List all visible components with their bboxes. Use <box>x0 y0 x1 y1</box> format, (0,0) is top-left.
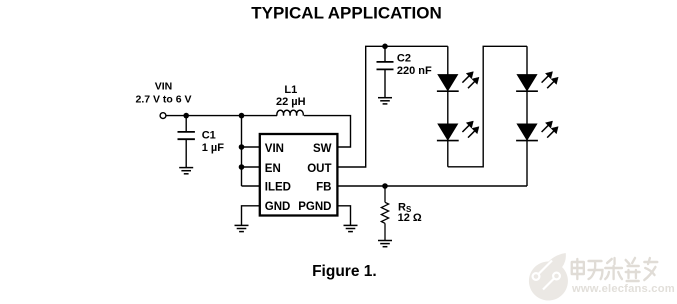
ground: GND pin <box>235 225 249 231</box>
D4 light arrows <box>542 121 559 138</box>
svg-text:C1: C1 <box>202 130 216 142</box>
junction: C1 tap <box>183 113 189 119</box>
wire: VIN rail left segment <box>166 115 277 117</box>
svg-text:22 µH: 22 µH <box>276 96 306 108</box>
wire: LED string 1 vertical <box>447 46 449 167</box>
LED D1 <box>437 75 459 92</box>
wire: string1 bottom jog to string2 top <box>448 46 527 167</box>
svg-text:EN: EN <box>265 163 281 175</box>
ground: RS <box>378 241 392 247</box>
svg-text:ILED: ILED <box>265 182 291 194</box>
inductor L1 <box>277 110 303 115</box>
junction: VIN pin <box>239 144 245 150</box>
LED D3 <box>516 75 538 92</box>
svg-text:Figure 1.: Figure 1. <box>312 263 377 280</box>
D1 light arrows <box>462 72 479 89</box>
resistor RS <box>381 186 388 240</box>
input terminal circle <box>160 113 166 119</box>
ground: PGND pin <box>344 225 358 231</box>
capacitor C1 <box>178 116 195 168</box>
svg-text:PGND: PGND <box>298 201 331 213</box>
svg-text:1 µF: 1 µF <box>202 142 225 154</box>
svg-text:220 nF: 220 nF <box>397 65 432 77</box>
svg-text:VIN: VIN <box>155 80 173 92</box>
junction: RS tap <box>382 183 388 189</box>
LED D2 <box>437 124 459 141</box>
svg-text:L1: L1 <box>284 84 297 96</box>
svg-text:SW: SW <box>313 143 332 155</box>
D3 light arrows <box>542 72 559 89</box>
svg-text:12 Ω: 12 Ω <box>398 212 422 224</box>
svg-text:2.7 V to 6 V: 2.7 V to 6 V <box>135 93 191 105</box>
ground: C2 <box>378 98 392 104</box>
svg-text:C2: C2 <box>397 53 411 65</box>
svg-text:TYPICAL APPLICATION: TYPICAL APPLICATION <box>251 4 441 23</box>
svg-text:FB: FB <box>316 182 331 194</box>
junction: C2 tap <box>382 44 388 50</box>
watermark chinese characters <box>572 258 658 281</box>
D2 light arrows <box>462 121 479 138</box>
junction: IC input tap <box>239 113 245 119</box>
capacitor C2 <box>377 46 394 97</box>
ground: C1 <box>179 168 193 174</box>
wire: IC input tap vertical and pin stubs <box>242 116 260 186</box>
IC U1 box <box>260 134 338 216</box>
svg-text:OUT: OUT <box>307 163 331 175</box>
wire: GND pin to ground <box>242 206 260 226</box>
svg-text:VIN: VIN <box>265 143 284 155</box>
svg-text:www.elecfans.com: www.elecfans.com <box>571 283 675 295</box>
wire: VIN rail right segment (L1 to SW corner) <box>304 116 351 147</box>
svg-text:GND: GND <box>265 201 291 213</box>
watermark logo ball <box>529 253 568 300</box>
junction: EN pin <box>239 164 245 170</box>
LED D4 <box>516 124 538 141</box>
wire: PGND pin to ground <box>337 206 350 226</box>
wire: OUT pin up to output rail <box>337 46 447 167</box>
wire: LED string 2 vertical <box>526 46 528 186</box>
wire: FB net <box>337 185 527 187</box>
